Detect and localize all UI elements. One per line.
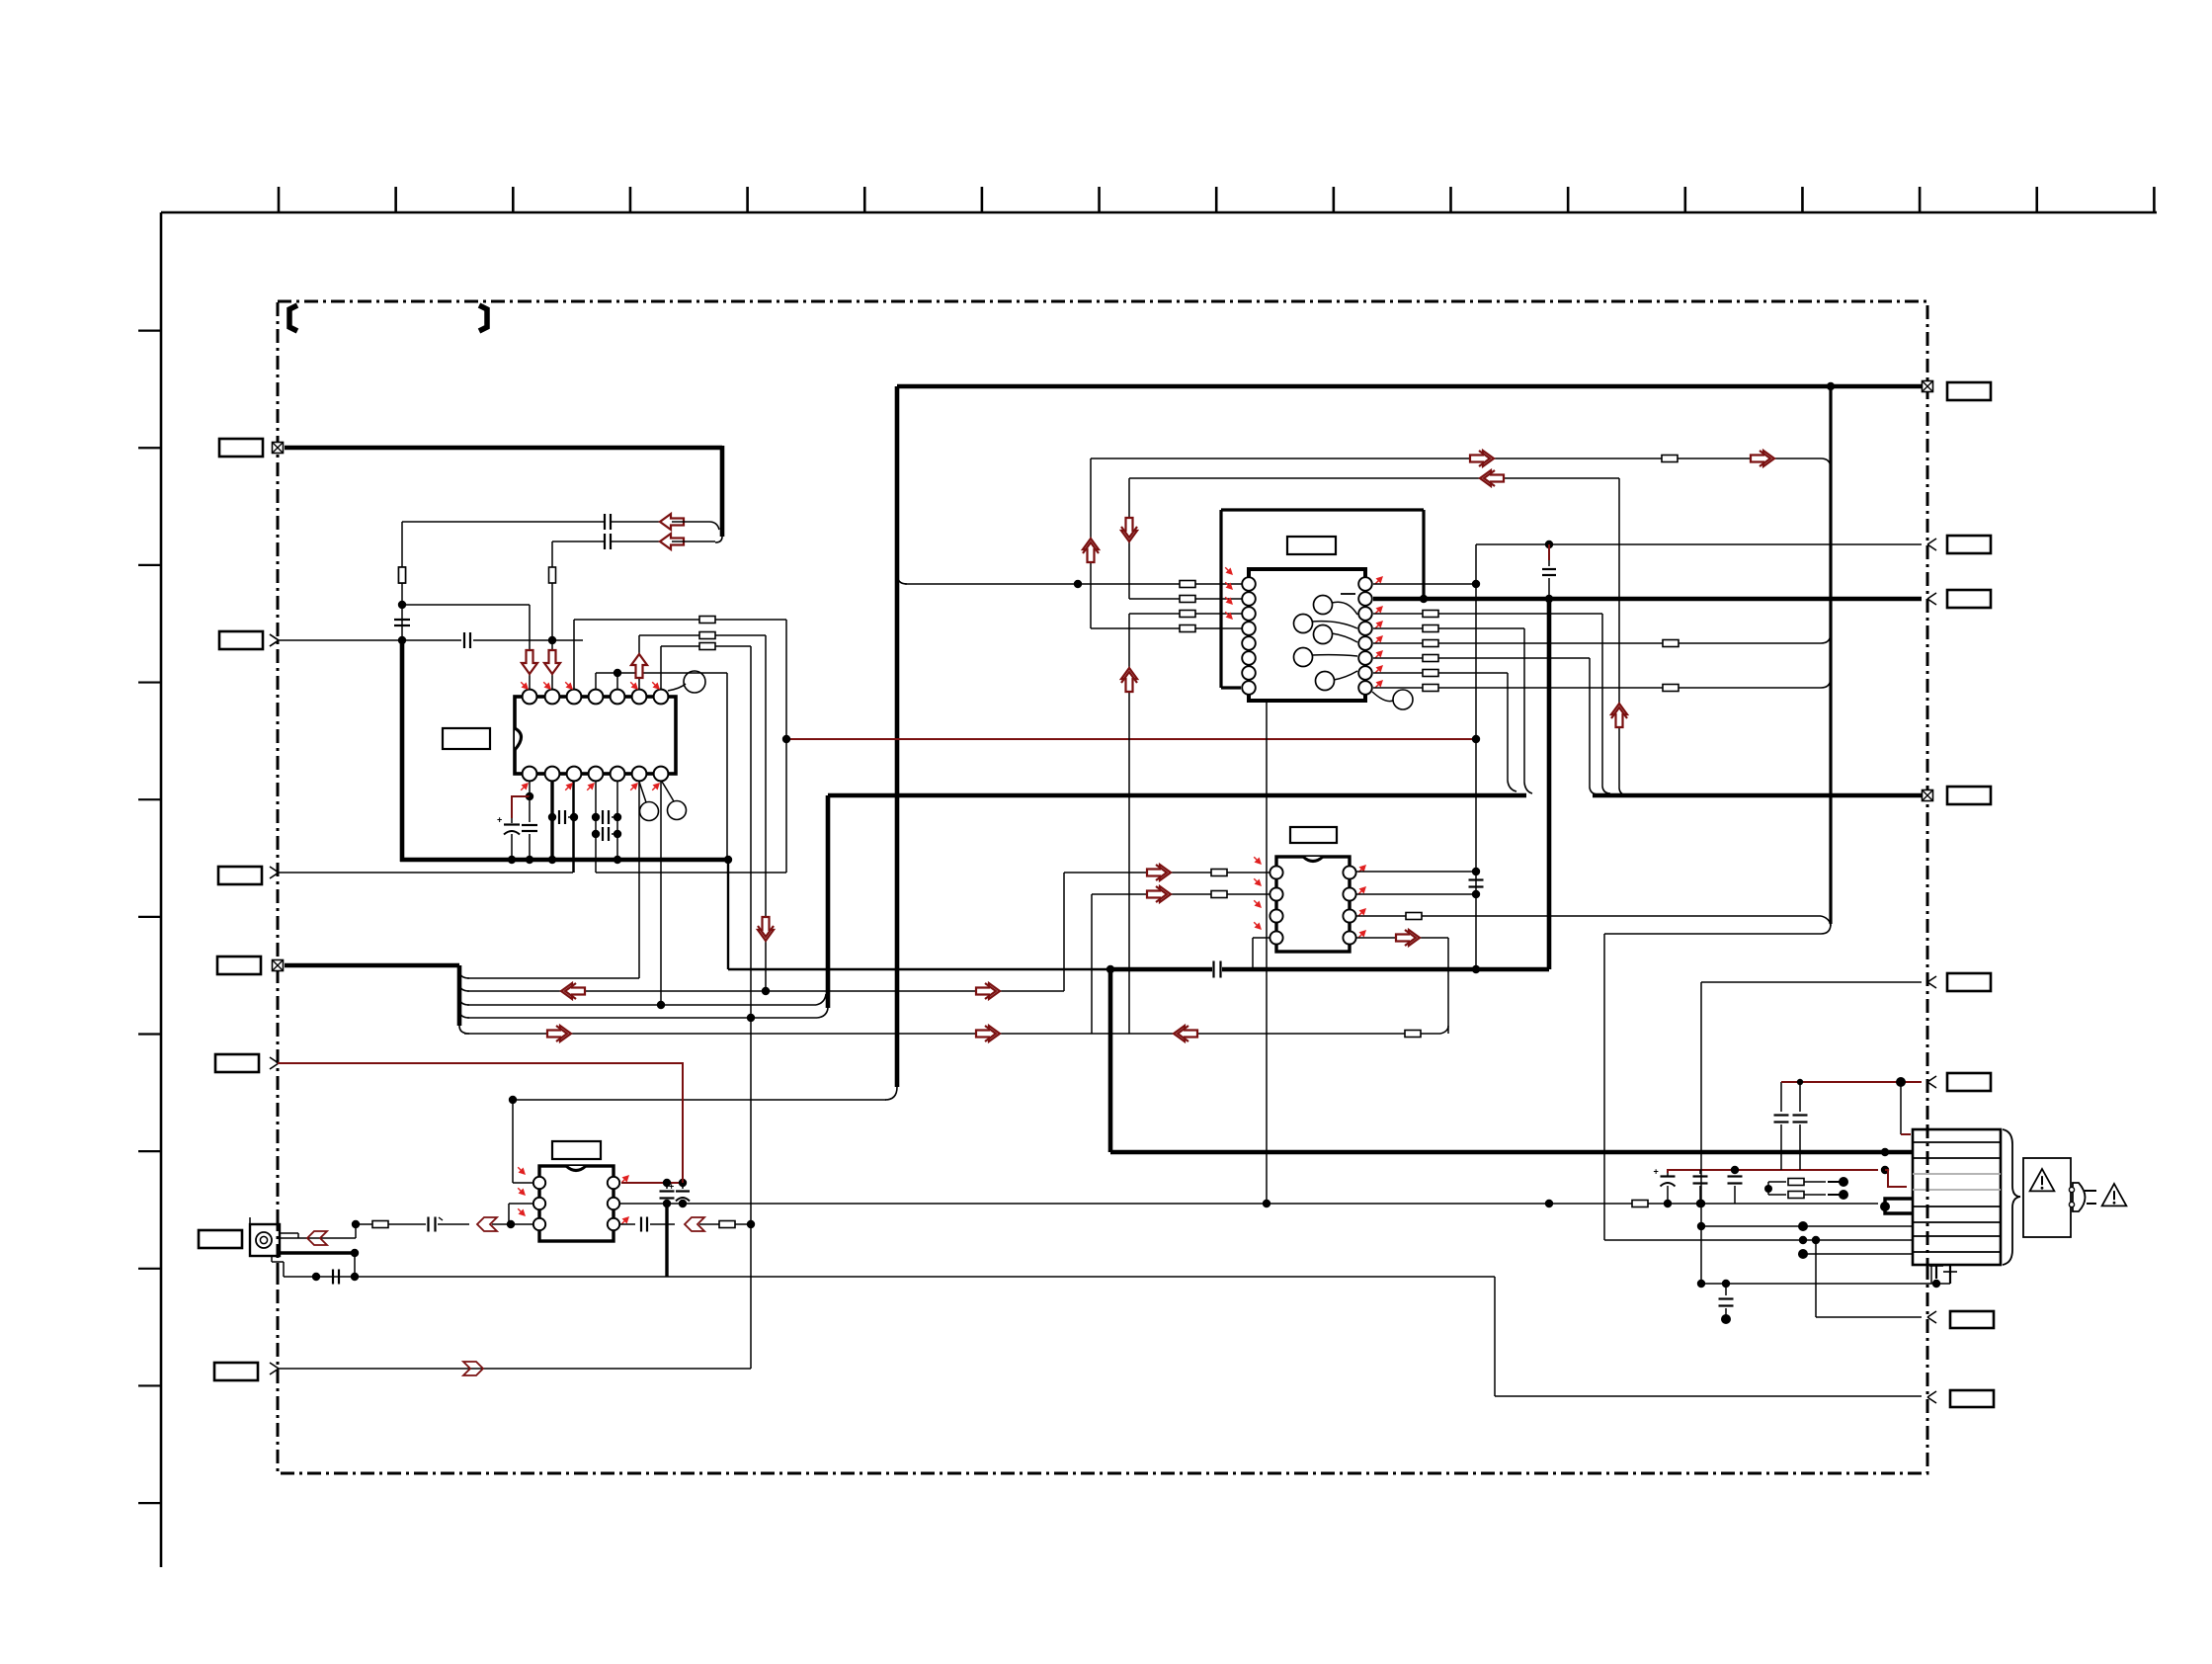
svg-text:+: +: [1654, 1167, 1659, 1177]
svg-text:+: +: [669, 1182, 674, 1192]
svg-text:+: +: [497, 815, 502, 825]
